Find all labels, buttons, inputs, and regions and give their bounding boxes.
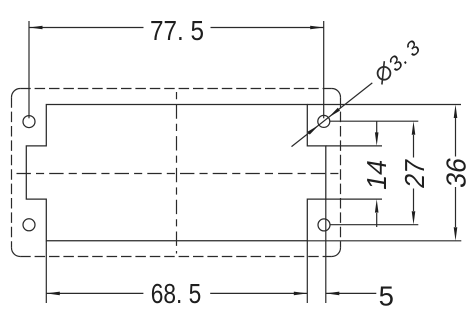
svg-text:3. 3: 3. 3 <box>386 35 424 77</box>
svg-text:77. 5: 77. 5 <box>150 15 204 46</box>
svg-text:5: 5 <box>379 280 394 311</box>
svg-text:14: 14 <box>361 157 392 192</box>
svg-text:36: 36 <box>441 155 472 190</box>
svg-text:68. 5: 68. 5 <box>151 278 202 309</box>
svg-text:27: 27 <box>399 157 430 190</box>
